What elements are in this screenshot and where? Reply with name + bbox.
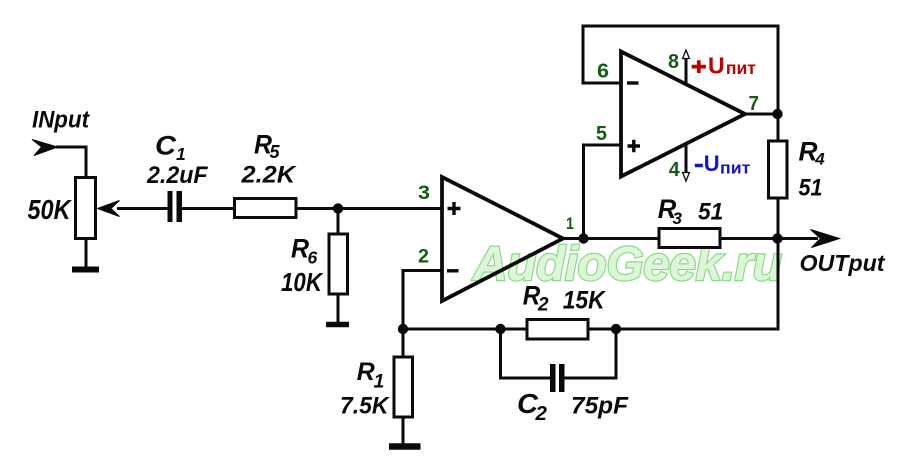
svg-text:4: 4 bbox=[669, 159, 681, 181]
svg-text:5: 5 bbox=[596, 123, 607, 145]
svg-text:C: C bbox=[155, 131, 177, 161]
node C2 left junction bbox=[495, 324, 505, 334]
wire pin7 node down to R4 bbox=[777, 114, 780, 141]
wire output node down and feedback to pin2 node bbox=[403, 239, 778, 330]
svg-text:OUTput: OUTput bbox=[800, 250, 886, 276]
ground bbox=[389, 443, 421, 450]
op-amp U1 bbox=[442, 177, 563, 301]
svg-text:2: 2 bbox=[535, 402, 548, 425]
svg-text:AudioGeek.ru: AudioGeek.ru bbox=[472, 238, 782, 291]
svg-text:INput: INput bbox=[32, 106, 90, 133]
svg-text:3: 3 bbox=[673, 209, 683, 228]
wire C2 branch left bbox=[501, 329, 552, 378]
resistor R4 bbox=[769, 141, 788, 198]
svg-text:пит: пит bbox=[720, 159, 750, 178]
svg-text:75pF: 75pF bbox=[571, 393, 629, 420]
svg-text:15K: 15K bbox=[563, 287, 607, 315]
svg-text:7: 7 bbox=[749, 93, 759, 115]
svg-text:2: 2 bbox=[418, 246, 429, 268]
wire R3 to output bbox=[720, 237, 818, 240]
resistor R3 bbox=[659, 229, 720, 248]
svg-text:1: 1 bbox=[566, 214, 574, 233]
pin 8 power stub bbox=[685, 59, 688, 85]
capacitor C2 bbox=[550, 364, 565, 392]
wire op-amp pin 2 to feedback node bbox=[403, 271, 442, 331]
svg-text:2: 2 bbox=[537, 294, 549, 315]
label R1 bbox=[357, 358, 385, 393]
svg-text:R: R bbox=[357, 358, 375, 386]
svg-text:U: U bbox=[708, 53, 725, 79]
wire pin1 node to op-amp2 pin 5 bbox=[584, 145, 622, 239]
svg-text:51: 51 bbox=[799, 175, 823, 202]
svg-text:3: 3 bbox=[418, 183, 430, 204]
pin 4 down arrow bbox=[683, 173, 690, 182]
wire C1 to R5 bbox=[182, 207, 235, 210]
label R3 bbox=[658, 194, 683, 228]
potentiometer wiper arrow bbox=[98, 201, 120, 217]
wire junction to R6 bbox=[337, 209, 340, 235]
svg-text:50K: 50K bbox=[28, 194, 73, 225]
svg-text:6: 6 bbox=[308, 248, 318, 268]
label R6 bbox=[291, 234, 318, 268]
node junction R5/R6 bbox=[333, 203, 343, 213]
node pin7 junction bbox=[772, 109, 782, 119]
wire R1 branch bbox=[402, 329, 405, 357]
node pin1 junction bbox=[578, 233, 588, 243]
resistor R2 bbox=[527, 320, 588, 340]
resistor R1 bbox=[394, 357, 413, 417]
svg-text:5: 5 bbox=[270, 142, 281, 162]
svg-text:пит: пит bbox=[726, 58, 756, 78]
label C2 bbox=[517, 388, 548, 425]
ground bbox=[72, 267, 99, 273]
label +Upit bbox=[692, 53, 757, 79]
svg-text:7.5K: 7.5K bbox=[340, 392, 390, 419]
wire R5 to op-amp pin 3 bbox=[296, 207, 442, 210]
label C1 bbox=[155, 131, 186, 165]
label R2 bbox=[523, 281, 549, 316]
svg-text:8: 8 bbox=[668, 51, 679, 73]
svg-text:6: 6 bbox=[597, 61, 609, 83]
wire input to potentiometer bbox=[56, 147, 86, 178]
output arrowhead bbox=[811, 230, 840, 248]
capacitor C1 bbox=[168, 191, 183, 222]
wire wiper to C1 bbox=[117, 207, 168, 210]
potentiometer 50K body bbox=[76, 178, 96, 239]
op-amp U2 bbox=[621, 52, 745, 177]
svg-text:2.2uF: 2.2uF bbox=[146, 162, 208, 189]
wire op-amp2 output pin 7 bbox=[745, 113, 778, 116]
ground bbox=[326, 322, 349, 328]
wire R6 to ground bbox=[337, 294, 340, 322]
resistor R6 bbox=[329, 234, 348, 294]
node output junction bbox=[772, 233, 782, 243]
input arrowhead bbox=[32, 140, 58, 156]
wire pot to ground bbox=[85, 238, 88, 267]
svg-text:51: 51 bbox=[698, 199, 723, 226]
label R5 bbox=[254, 130, 281, 163]
node feedback left junction bbox=[398, 324, 408, 334]
svg-text:U: U bbox=[704, 151, 720, 176]
svg-text:10K: 10K bbox=[281, 267, 324, 297]
label R4 bbox=[799, 137, 826, 169]
wire C2 branch right bbox=[564, 329, 616, 378]
pin 8 up arrow bbox=[683, 50, 690, 59]
resistor R5 bbox=[235, 199, 297, 218]
svg-text:1: 1 bbox=[176, 144, 186, 164]
pin 4 power stub bbox=[685, 143, 688, 172]
svg-text:2.2K: 2.2K bbox=[240, 162, 296, 189]
label -Upit bbox=[695, 151, 751, 178]
node C2 right junction bbox=[611, 324, 621, 334]
svg-text:4: 4 bbox=[814, 150, 825, 169]
svg-text:R: R bbox=[291, 234, 309, 264]
wire R1 to ground bbox=[402, 417, 405, 444]
wire pin 6 feedback loop over top bbox=[583, 26, 778, 114]
wire op-amp1 output to R3 bbox=[563, 237, 659, 240]
svg-text:1: 1 bbox=[374, 371, 385, 393]
wire R4 to output node bbox=[777, 198, 780, 239]
